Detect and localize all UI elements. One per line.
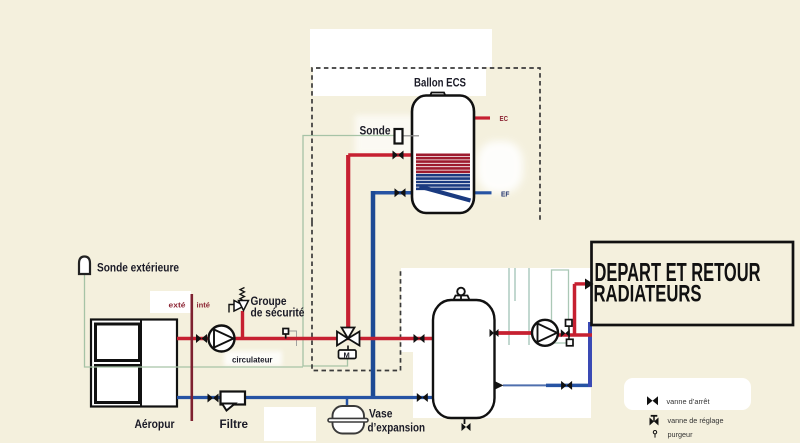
svg-text:Sonde: Sonde [360,126,391,138]
svg-text:EF: EF [501,191,510,198]
svg-text:exté: exté [169,303,186,310]
svg-text:Ballon ECS: Ballon ECS [414,77,466,89]
svg-text:purgeur: purgeur [668,430,694,439]
svg-text:Vase: Vase [369,409,393,421]
svg-text:Filtre: Filtre [220,417,249,431]
svg-text:de sécurité: de sécurité [251,307,305,319]
svg-text:inté: inté [197,303,211,310]
svg-text:vanne d’arrêt: vanne d’arrêt [667,397,710,406]
svg-text:Sonde extérieure: Sonde extérieure [97,260,179,274]
svg-text:EC: EC [500,116,509,123]
svg-text:M: M [344,350,350,359]
svg-text:Groupe: Groupe [251,296,287,308]
svg-text:Aéropur: Aéropur [135,417,175,431]
svg-text:circulateur: circulateur [232,354,273,364]
svg-text:vanne de réglage: vanne de réglage [668,416,724,425]
svg-text:RADIATEURS: RADIATEURS [594,281,702,308]
svg-text:d’expansion: d’expansion [368,423,426,435]
